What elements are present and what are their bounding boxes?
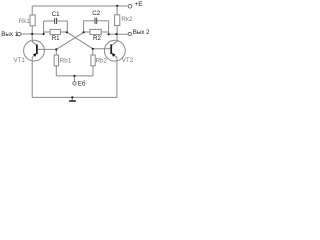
svg-text:Rb1: Rb1 [60, 57, 72, 64]
svg-text:Rb2: Rb2 [96, 58, 108, 65]
svg-text:C1: C1 [52, 11, 60, 18]
svg-text:Eб: Eб [78, 80, 86, 87]
svg-text:VT1: VT1 [14, 57, 26, 64]
svg-text:+E: +E [134, 1, 143, 8]
svg-text:C2: C2 [92, 10, 100, 17]
svg-text:Rk2: Rk2 [121, 16, 133, 23]
svg-text:R2: R2 [93, 35, 101, 42]
svg-text:Вых 2: Вых 2 [133, 29, 149, 36]
svg-text:R1: R1 [52, 35, 60, 42]
svg-text:Вых 1: Вых 1 [1, 31, 18, 38]
svg-text:Rk1: Rk1 [19, 18, 31, 25]
svg-text:VT2: VT2 [122, 57, 134, 64]
